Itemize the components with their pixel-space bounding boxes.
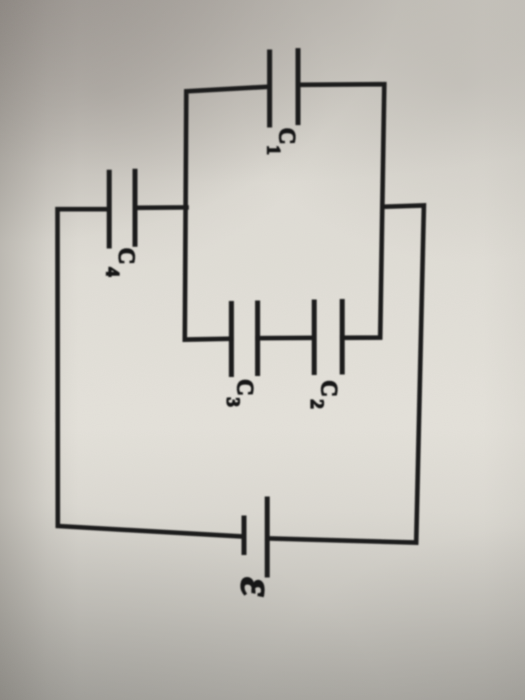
svg-text:C: C [114, 248, 139, 265]
svg-text:ε: ε [231, 577, 284, 597]
svg-text:4: 4 [101, 267, 122, 277]
svg-text:3: 3 [222, 397, 243, 407]
svg-text:C: C [274, 128, 299, 145]
svg-text:C: C [232, 379, 257, 396]
svg-text:1: 1 [263, 145, 284, 155]
svg-text:C: C [316, 380, 341, 397]
svg-text:2: 2 [306, 399, 327, 409]
